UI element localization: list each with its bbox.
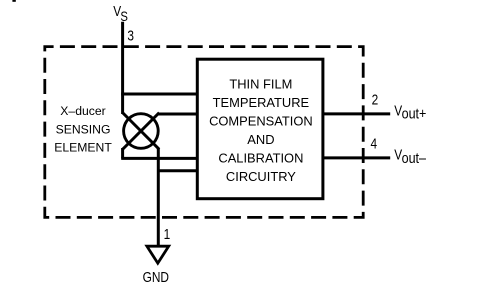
node Vout+ label: [394, 102, 426, 122]
wire bridge bottom-left vertical drop: [121, 148, 124, 158]
svg-text:SENSING: SENSING: [56, 122, 111, 136]
svg-text:THIN FILM: THIN FILM: [229, 76, 292, 91]
sensing element bridge diagonal 1: [123, 113, 160, 150]
wire bridge top-right to circuitry box: [158, 113, 197, 116]
node VS label: [113, 3, 128, 24]
ground symbol arrow: [147, 246, 169, 263]
wire output positive: [323, 112, 390, 115]
dashed package outline: [45, 47, 363, 218]
circuitry block U1: [197, 59, 323, 199]
svg-text:1: 1: [164, 226, 171, 242]
wire output negative: [323, 156, 390, 159]
wire lower branch to circuitry box: [158, 169, 197, 172]
svg-text:COMPENSATION: COMPENSATION: [209, 113, 313, 128]
svg-text:TEMPERATURE: TEMPERATURE: [213, 95, 310, 110]
svg-text:GND: GND: [143, 269, 169, 285]
sensing element circle: [124, 114, 159, 149]
svg-text:4: 4: [371, 135, 378, 151]
svg-text:2: 2: [372, 91, 379, 107]
svg-text:AND: AND: [247, 132, 274, 147]
circuitry block text: [209, 76, 313, 184]
stray cropped mark top-left: [12, 0, 15, 2]
wire VS supply vertical: [121, 22, 124, 114]
wire supply branch to circuitry box: [121, 93, 197, 96]
svg-text:3: 3: [127, 27, 134, 43]
svg-text:out+: out+: [402, 106, 427, 122]
wire bottom branch to circuitry box: [121, 157, 197, 160]
X-ducer sensing element label: [54, 104, 112, 155]
sensing element bridge diagonal 2: [123, 113, 160, 150]
svg-text:CIRCUITRY: CIRCUITRY: [226, 169, 296, 184]
wire ground vertical: [157, 149, 160, 246]
svg-text:ELEMENT: ELEMENT: [54, 141, 112, 155]
svg-text:out–: out–: [402, 150, 427, 166]
node Vout- label: [394, 146, 426, 166]
svg-text:CALIBRATION: CALIBRATION: [218, 150, 303, 165]
svg-text:X–ducer: X–ducer: [60, 104, 105, 118]
